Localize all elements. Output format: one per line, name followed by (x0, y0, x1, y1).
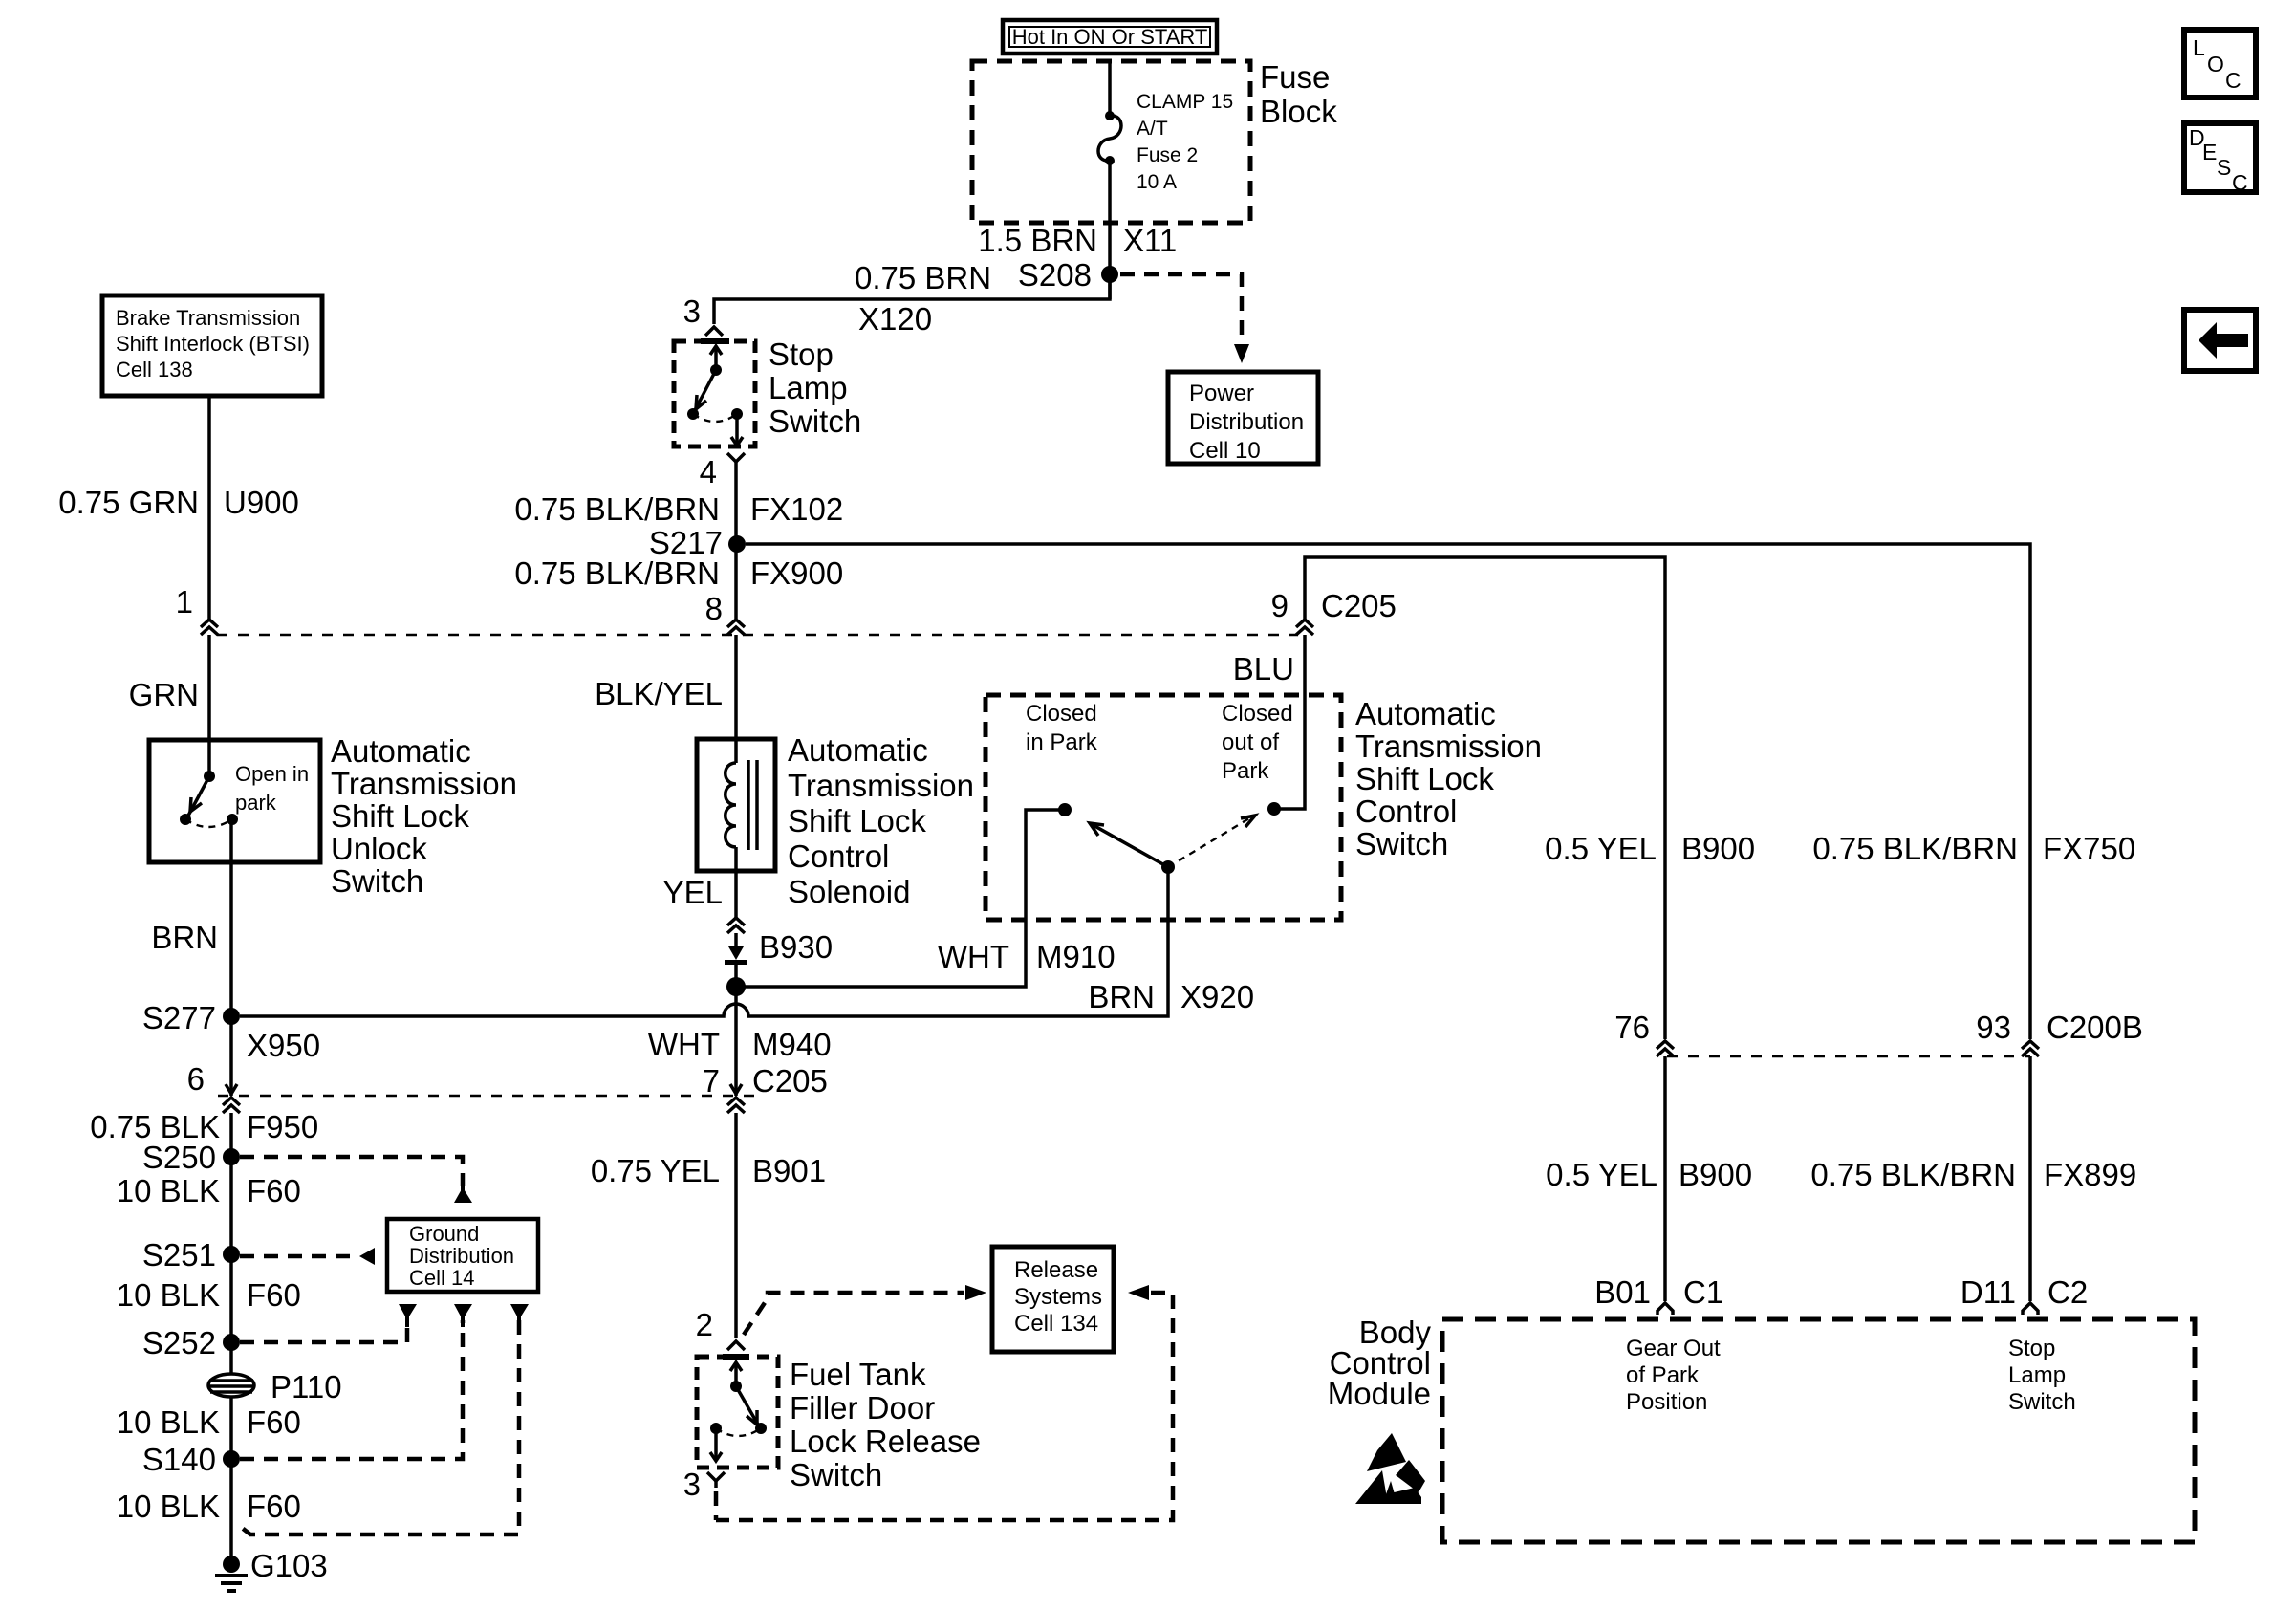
wire B900 lower run (1663, 1056, 1667, 1301)
control switch name (1355, 696, 1542, 861)
svg-text:Control: Control (1355, 794, 1457, 829)
svg-text:BRN: BRN (1088, 979, 1155, 1014)
svg-text:X120: X120 (858, 301, 932, 337)
svg-text:FX899: FX899 (2044, 1157, 2136, 1192)
Ground Distribution Cell 14 box (387, 1219, 538, 1292)
stop lamp switch contacts and arm (687, 346, 743, 446)
ground distribution arrow 1 (399, 1304, 417, 1327)
svg-text:C205: C205 (1321, 588, 1397, 623)
connector pin 4 (700, 453, 745, 490)
svg-text:Distribution: Distribution (409, 1244, 514, 1268)
annotation Stop Lamp Switch in BCM (2008, 1336, 2076, 1415)
svg-text:B901: B901 (752, 1153, 826, 1188)
svg-text:D11: D11 (1960, 1274, 2016, 1310)
connector B930 carets (727, 918, 745, 933)
label 0.75 BLK/BRN FX899 (1810, 1157, 2136, 1192)
svg-text:Release: Release (1014, 1257, 1098, 1283)
splice S208 (1018, 257, 1118, 293)
wire X920 from S277 to control switch pivot (hop over M940) (240, 867, 1168, 1016)
svg-text:S251: S251 (142, 1237, 216, 1273)
svg-text:0.5 YEL: 0.5 YEL (1545, 831, 1657, 866)
label 0.75 BLK/BRN FX750 (1812, 831, 2135, 866)
svg-text:L: L (2193, 35, 2205, 60)
connector D11 C2 (1960, 1274, 2088, 1315)
svg-text:8: 8 (705, 591, 723, 626)
wire BLK/YEL to solenoid (734, 635, 738, 741)
solenoid coil (726, 739, 757, 871)
dashed ref: S251 to ground distribution (240, 1248, 375, 1265)
svg-text:93: 93 (1976, 1010, 2011, 1045)
control switch contacts and arms (1058, 802, 1281, 874)
wire 0.75 YEL B901 (734, 1113, 738, 1338)
svg-text:3: 3 (683, 1467, 701, 1502)
svg-text:Systems: Systems (1014, 1284, 1102, 1310)
svg-text:3: 3 (683, 294, 701, 329)
fuel door switch contacts and arm (710, 1362, 767, 1461)
svg-text:0.75 GRN: 0.75 GRN (58, 485, 199, 520)
svg-text:S252: S252 (142, 1325, 216, 1360)
annotation Closed in Park (1026, 701, 1098, 755)
svg-text:0.75 BRN: 0.75 BRN (855, 260, 991, 295)
connector pin 3 (683, 294, 723, 336)
dashed ref: Release Systems from fuel door switch pin 3 loop (716, 1285, 1173, 1520)
svg-text:9: 9 (1271, 588, 1289, 623)
svg-text:7: 7 (703, 1063, 720, 1099)
svg-text:S277: S277 (142, 1000, 216, 1035)
automatic transmission shift lock control solenoid box (697, 739, 775, 871)
splice S250 (142, 1140, 240, 1175)
svg-text:F60: F60 (247, 1277, 301, 1313)
splice S277 (142, 1000, 240, 1035)
connector C205 pin 6 (187, 1061, 240, 1113)
svg-text:YEL: YEL (663, 875, 723, 910)
svg-text:Brake Transmission: Brake Transmission (116, 306, 300, 330)
wire X120 0.75 BRN (714, 274, 1110, 324)
svg-text:76: 76 (1614, 1010, 1650, 1045)
svg-text:Transmission: Transmission (1355, 729, 1542, 764)
label 0.5 YEL B900 lower (1546, 1157, 1752, 1192)
svg-text:X950: X950 (247, 1028, 320, 1063)
svg-text:Park: Park (1222, 758, 1269, 784)
svg-text:Automatic: Automatic (331, 733, 471, 769)
svg-text:Switch: Switch (2008, 1389, 2076, 1415)
splice S252 (142, 1325, 240, 1360)
ESD sensitive device symbol (1355, 1433, 1425, 1504)
svg-text:0.75 YEL: 0.75 YEL (591, 1153, 720, 1188)
stop lamp switch terminal bar (701, 338, 729, 344)
dashed stub below fuel door pin 3 (714, 1491, 719, 1520)
wire FX899 lower run (2028, 1056, 2032, 1301)
wire BRN to S277 (229, 819, 233, 1096)
svg-text:10 BLK: 10 BLK (117, 1173, 220, 1208)
svg-text:Switch: Switch (769, 403, 861, 439)
connector B01 C1 (1594, 1274, 1723, 1315)
wire GRN to unlock switch (207, 635, 211, 776)
svg-text:Cell 138: Cell 138 (116, 358, 193, 381)
svg-text:10 A: 10 A (1137, 171, 1177, 193)
dashed ref: S208 to Power Distribution (1120, 274, 1249, 363)
svg-text:Automatic: Automatic (1355, 696, 1496, 731)
inline connector P110 (208, 1369, 342, 1404)
annotation Closed out of Park (1222, 701, 1293, 784)
wire BLU from control switch to C205 pin 9 (1274, 635, 1305, 809)
wire FX102 below stop lamp switch (734, 468, 738, 619)
svg-text:2: 2 (696, 1307, 713, 1342)
svg-text:in Park: in Park (1026, 729, 1098, 755)
wire YEL below solenoid (734, 871, 738, 918)
svg-text:BLU: BLU (1233, 651, 1294, 686)
wire: hot feed into fuse (1108, 61, 1112, 115)
automatic transmission shift lock control switch dashed box (986, 695, 1341, 920)
svg-text:Transmission: Transmission (788, 768, 974, 803)
wire F950 ground chain (229, 1113, 233, 1374)
svg-text:park: park (235, 791, 277, 815)
DESC icon (2184, 123, 2256, 195)
ground G103 (215, 1548, 328, 1591)
svg-text:Hot In ON Or START: Hot In ON Or START (1012, 25, 1208, 49)
svg-text:C200B: C200B (2047, 1010, 2143, 1045)
wire to splice below diode (734, 965, 738, 1096)
svg-text:Closed: Closed (1222, 701, 1293, 727)
connector C205 pin 9 (1271, 588, 1397, 635)
svg-text:1.5 BRN: 1.5 BRN (978, 223, 1097, 258)
svg-text:S140: S140 (142, 1442, 216, 1477)
svg-text:0.75 BLK/BRN: 0.75 BLK/BRN (514, 555, 720, 591)
dashed ref: S252 to arrow 1 (240, 1320, 407, 1342)
svg-text:F60: F60 (247, 1404, 301, 1440)
svg-text:BRN: BRN (151, 920, 218, 955)
label 0.75 BRN X120 (855, 260, 991, 337)
connector C205 pin 8 (705, 591, 745, 635)
svg-text:GRN: GRN (129, 677, 199, 712)
svg-text:Block: Block (1260, 94, 1337, 129)
svg-text:C2: C2 (2047, 1274, 2088, 1310)
unlock switch Open in park annotation (235, 762, 309, 815)
C200B dashed connector line (1667, 1055, 2030, 1057)
svg-text:X920: X920 (1180, 979, 1254, 1014)
back-arrow icon (2184, 310, 2256, 371)
Power Distribution Cell 10 box (1168, 372, 1318, 464)
fuse block dashed box (972, 61, 1250, 223)
splice S251 (142, 1237, 240, 1273)
svg-text:S208: S208 (1018, 257, 1092, 293)
svg-text:0.5 YEL: 0.5 YEL (1546, 1157, 1657, 1192)
svg-text:Fuse: Fuse (1260, 59, 1330, 95)
svg-text:B930: B930 (759, 929, 833, 965)
svg-text:Distribution: Distribution (1189, 409, 1304, 435)
svg-text:M910: M910 (1036, 939, 1116, 974)
label 0.5 YEL B900 upper (1545, 831, 1755, 866)
svg-text:Shift Interlock (BTSI): Shift Interlock (BTSI) (116, 332, 310, 356)
stop lamp switch name (769, 337, 861, 439)
fuel door switch terminal bar (723, 1354, 749, 1360)
svg-text:WHT: WHT (938, 939, 1009, 974)
splice S217 (649, 525, 746, 560)
svg-text:10 BLK: 10 BLK (117, 1277, 220, 1313)
svg-text:CLAMP 15: CLAMP 15 (1137, 91, 1233, 113)
svg-text:10 BLK: 10 BLK (117, 1404, 220, 1440)
wire F60 below P110 (229, 1398, 233, 1564)
svg-text:FX750: FX750 (2043, 831, 2135, 866)
Hot In ON Or START label box (1003, 20, 1217, 54)
label WHT M910 (938, 939, 1116, 974)
svg-text:F950: F950 (247, 1109, 318, 1144)
dashed ref: S140 to arrow 2 (240, 1320, 463, 1459)
label 10 BLK F60 second (117, 1277, 301, 1313)
stop lamp switch dashed box (674, 341, 755, 446)
svg-text:Transmission: Transmission (331, 766, 517, 801)
svg-text:S250: S250 (142, 1140, 216, 1175)
wire from pin 9 up and over to B900 (1305, 557, 1665, 1039)
svg-text:E: E (2202, 140, 2217, 164)
svg-text:4: 4 (700, 454, 717, 490)
wire: fuse output 1.5 BRN X11 (1108, 161, 1112, 299)
annotation Gear Out of Park Position (1626, 1336, 1721, 1415)
svg-text:Switch: Switch (1355, 826, 1448, 861)
svg-text:U900: U900 (224, 485, 299, 520)
svg-text:Position: Position (1626, 1389, 1707, 1415)
svg-text:WHT: WHT (648, 1027, 720, 1062)
Release Systems Cell 134 box (992, 1247, 1114, 1352)
label 0.75 BLK/BRN FX102 (514, 491, 843, 527)
svg-text:Power: Power (1189, 381, 1254, 406)
connector pin 2 (696, 1307, 745, 1350)
svg-text:C205: C205 (752, 1063, 828, 1099)
svg-text:F60: F60 (247, 1173, 301, 1208)
svg-text:Lamp: Lamp (2008, 1362, 2066, 1388)
dashed ref: S250 to ground distribution (240, 1157, 472, 1203)
svg-text:FX102: FX102 (750, 491, 843, 527)
ground distribution arrow 2 (454, 1304, 472, 1327)
connector C205 pin 1 (176, 584, 218, 635)
svg-text:S: S (2217, 155, 2231, 180)
svg-text:Cell 10: Cell 10 (1189, 438, 1261, 464)
wire WHT M910 to control switch (736, 810, 1065, 987)
svg-text:Automatic: Automatic (788, 732, 928, 768)
label 0.75 YEL B901 (591, 1153, 826, 1188)
LOC icon (2184, 30, 2256, 98)
svg-text:B900: B900 (1681, 831, 1755, 866)
svg-text:Ground: Ground (409, 1222, 479, 1246)
svg-text:Switch: Switch (331, 863, 423, 899)
splice S140 (142, 1442, 240, 1477)
svg-text:B01: B01 (1594, 1274, 1651, 1310)
svg-text:A/T: A/T (1137, 118, 1168, 140)
upper C205 dashed connector line (217, 634, 1298, 636)
svg-text:BLK/YEL: BLK/YEL (595, 676, 723, 711)
svg-text:Cell 14: Cell 14 (409, 1266, 474, 1290)
svg-text:Solenoid: Solenoid (788, 874, 910, 909)
fuel tank filler door lock release switch dashed box (697, 1357, 778, 1468)
connector C205 pin 7 (703, 1063, 828, 1113)
svg-text:6: 6 (187, 1061, 205, 1097)
body control module dashed box (1442, 1319, 2195, 1542)
svg-text:Switch: Switch (790, 1457, 882, 1492)
label 10 BLK F60 first (117, 1173, 301, 1208)
svg-text:Cell 134: Cell 134 (1014, 1311, 1098, 1337)
svg-text:1: 1 (176, 584, 193, 620)
svg-text:Lamp: Lamp (769, 370, 848, 405)
svg-text:Open in: Open in (235, 762, 309, 786)
svg-text:C: C (2232, 170, 2248, 195)
svg-text:F60: F60 (247, 1489, 301, 1524)
wire 0.75 GRN U900 (207, 396, 211, 620)
svg-text:Shift Lock: Shift Lock (788, 803, 926, 838)
svg-text:Gear Out: Gear Out (1626, 1336, 1721, 1361)
svg-text:Filler Door: Filler Door (790, 1390, 935, 1425)
fuse block name label (1260, 59, 1337, 129)
diode B930 (725, 929, 833, 965)
label 10 BLK F60 fourth (117, 1489, 301, 1524)
svg-text:P110: P110 (271, 1369, 342, 1404)
label BRN X920 (1088, 979, 1254, 1014)
label 1.5 BRN X11 (978, 223, 1177, 258)
svg-text:Closed: Closed (1026, 701, 1097, 727)
automatic transmission shift lock unlock switch box (149, 740, 320, 862)
label 0.75 BLK/BRN FX900 (514, 555, 843, 591)
body control module name (1328, 1315, 1432, 1411)
label 0.75 GRN U900 (58, 485, 299, 520)
unlock switch contacts and arm (180, 771, 238, 827)
svg-text:0.75 BLK/BRN: 0.75 BLK/BRN (1812, 831, 2018, 866)
svg-text:Control: Control (788, 838, 889, 874)
svg-text:0.75 BLK/BRN: 0.75 BLK/BRN (1810, 1157, 2016, 1192)
ground distribution arrow 3 (510, 1304, 529, 1327)
fuse CLAMP 15 A/T Fuse 2 10 A (1098, 91, 1233, 193)
svg-text:out of: out of (1222, 729, 1279, 755)
svg-text:10 BLK: 10 BLK (117, 1489, 220, 1524)
svg-text:X11: X11 (1123, 223, 1177, 258)
svg-text:Module: Module (1328, 1376, 1431, 1411)
connector pin 3 fuel door (683, 1467, 725, 1502)
connector C200B pin 76 (1614, 1010, 1674, 1056)
connector C200B pin 93 (1976, 1010, 2143, 1056)
solenoid name (788, 732, 974, 909)
dashed ref: pin 2 to Release Systems (744, 1285, 986, 1335)
svg-text:Stop: Stop (769, 337, 834, 372)
svg-text:of Park: of Park (1626, 1362, 1700, 1388)
svg-text:Lock Release: Lock Release (790, 1424, 981, 1459)
wire FX750 top run from S217 to right (746, 544, 2030, 1039)
dashed ref: ground G103 to arrow 3 (237, 1320, 519, 1534)
svg-text:Stop: Stop (2008, 1336, 2055, 1361)
svg-text:Fuel Tank: Fuel Tank (790, 1357, 926, 1392)
unlock switch name (331, 733, 517, 899)
svg-text:FX900: FX900 (750, 555, 843, 591)
splice node below B930 (726, 977, 746, 996)
label WHT M940 (648, 1027, 832, 1062)
fuel door switch name (790, 1357, 981, 1492)
svg-text:M940: M940 (752, 1027, 832, 1062)
Brake Transmission Shift Interlock (BTSI) Cell 138 box (102, 295, 322, 396)
svg-text:C: C (2225, 68, 2242, 93)
label 0.75 BLK F950 (90, 1109, 318, 1144)
svg-text:G103: G103 (250, 1548, 328, 1583)
label 10 BLK F60 third (117, 1404, 301, 1440)
svg-text:O: O (2207, 52, 2224, 76)
svg-text:B900: B900 (1679, 1157, 1752, 1192)
svg-text:0.75 BLK/BRN: 0.75 BLK/BRN (514, 491, 720, 527)
svg-text:Fuse 2: Fuse 2 (1137, 144, 1198, 166)
svg-text:Shift Lock: Shift Lock (331, 798, 469, 834)
lower C205 dashed connector line (218, 1095, 755, 1097)
svg-text:C1: C1 (1683, 1274, 1723, 1310)
svg-text:Unlock: Unlock (331, 831, 427, 866)
svg-text:Shift Lock: Shift Lock (1355, 761, 1494, 796)
